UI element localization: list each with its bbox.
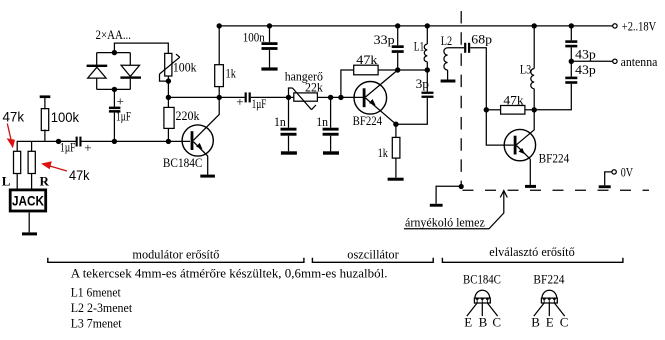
terminal antenna — [613, 59, 617, 63]
svg-text:JACK: JACK — [12, 193, 44, 208]
svg-text:oszcillátor: oszcillátor — [347, 247, 399, 262]
capacitor C8 3p plate bottom — [422, 96, 434, 98]
wire node F to Q3 base — [486, 110, 513, 145]
resistor R2 47k body — [14, 151, 21, 173]
node rail L1 — [425, 23, 430, 28]
wire L2 to ground — [447, 70, 449, 80]
svg-text:1µF: 1µF — [60, 140, 75, 155]
wire P2 right to C6 — [330, 97, 332, 127]
shield boundary vertical dashed — [460, 11, 462, 187]
potentiometer P2 arrow — [293, 88, 316, 110]
wire rail to L3 — [533, 26, 535, 69]
wire main C2 to base node — [82, 140, 191, 142]
svg-text:BF224: BF224 — [539, 151, 570, 166]
arrow Q2 emitter — [369, 99, 376, 105]
node B R4-collector junction — [217, 95, 222, 100]
resistor R4 1k body — [215, 65, 224, 87]
svg-text:1n: 1n — [316, 114, 328, 129]
potentiometer P2 22k body — [294, 93, 318, 101]
wire rail to C10 — [570, 26, 572, 40]
resistor R7 1k body — [392, 137, 400, 158]
supply tap T-bar — [40, 95, 51, 98]
diode D2 triangle — [121, 65, 139, 76]
wire stub to R3 — [31, 141, 33, 151]
svg-text:0V: 0V — [621, 165, 634, 180]
svg-text:B: B — [479, 315, 488, 330]
arrow leader head — [500, 191, 507, 198]
ground L2 — [441, 80, 456, 83]
terminal 0V — [612, 170, 616, 174]
resistor R3 47k body — [28, 151, 35, 173]
node junction on main wire left — [56, 139, 61, 144]
svg-text:47k: 47k — [69, 167, 90, 183]
svg-text:E: E — [464, 315, 472, 330]
node rail C7 — [395, 23, 400, 28]
wire node A to R5 — [167, 97, 169, 107]
svg-text:L3 7menet: L3 7menet — [71, 315, 122, 330]
svg-text:33p: 33p — [374, 32, 395, 47]
svg-text:+: + — [84, 140, 91, 155]
wire C1 to main node — [113, 113, 115, 142]
wire battery to 100k pot — [114, 43, 168, 53]
wire C6 to ground — [330, 136, 332, 152]
wire Q1 emitter to ground — [207, 156, 209, 175]
capacitor C2 1uF plate left — [76, 137, 78, 147]
capacitor C10 43p plate top — [565, 40, 577, 43]
wire P1 wiper link — [160, 74, 169, 81]
wire Q2 collector — [366, 70, 398, 97]
capacitor C6 1n plate bottom — [323, 133, 339, 136]
diode D1 cathode bar — [87, 65, 108, 67]
arrow Q1 emitter — [196, 143, 202, 149]
wire R1 to main wire — [44, 130, 46, 142]
wire Q3 emitter to ground — [529, 159, 531, 185]
wire rail to L1 — [426, 26, 428, 44]
wire supply to R1 — [44, 98, 46, 109]
arrow red annotation 2 — [41, 161, 67, 171]
pinout case BF224 — [541, 290, 557, 303]
inductor L2 coil — [444, 48, 448, 70]
node battery top — [112, 50, 117, 55]
resistor R8 47k body — [501, 106, 525, 115]
inductor L1 coil — [424, 44, 427, 62]
svg-text:100k: 100k — [173, 60, 197, 75]
svg-text:B: B — [531, 315, 540, 330]
arrow red annotation 1 — [7, 124, 15, 149]
wire battery bottom to C1 — [113, 89, 115, 106]
node shield ground junction — [459, 184, 464, 189]
svg-text:2×AA...: 2×AA... — [96, 27, 132, 42]
pinout BF224 legs — [534, 303, 565, 316]
wire P2 left lead — [289, 96, 294, 98]
wire node E to C8 — [396, 98, 427, 124]
node F base junction — [484, 107, 489, 112]
node rail L3 — [532, 23, 537, 28]
svg-text:43p: 43p — [575, 46, 596, 61]
svg-text:47k: 47k — [356, 52, 378, 67]
svg-text:L2: L2 — [441, 33, 452, 48]
wire right battery branch lower — [129, 79, 131, 90]
svg-text:modulátor erősítő: modulátor erősítő — [132, 247, 219, 262]
wire C5 to ground — [288, 136, 290, 152]
capacitor C1 1uF plate top — [109, 107, 121, 110]
terminal supply — [613, 24, 617, 28]
ground 0V — [599, 185, 611, 188]
node rail C3 — [267, 23, 272, 28]
svg-text:L3: L3 — [520, 61, 531, 76]
wire L1 to node D — [426, 62, 428, 70]
svg-text:100k: 100k — [51, 109, 80, 125]
wire P2 wiper link — [289, 88, 293, 97]
wire node E to R7 — [395, 124, 397, 137]
wire node C to node D — [398, 69, 428, 71]
wire R2 to jack — [16, 174, 18, 189]
svg-text:BF224: BF224 — [353, 113, 383, 128]
capacitor C8 3p plate top — [422, 92, 434, 94]
node battery bottom — [112, 87, 117, 92]
inductor L3 coil — [531, 69, 534, 89]
wire antenna lead — [571, 60, 612, 62]
svg-text:C: C — [560, 315, 569, 330]
svg-text:+: + — [117, 94, 124, 109]
svg-text:L1: L1 — [414, 39, 425, 54]
svg-text:L2 2-3menet: L2 2-3menet — [71, 300, 133, 315]
node A P1-R5 junction — [166, 95, 171, 100]
ground C5 — [281, 151, 297, 154]
wire right battery branch upper — [129, 53, 131, 66]
wire R8 right lead — [525, 109, 534, 111]
capacitor C5 1n plate bottom — [281, 133, 297, 136]
transistor Q2 base bar — [363, 88, 366, 107]
capacitor C4 1uF plate left — [245, 92, 247, 102]
wire Q3 collector — [517, 110, 535, 145]
svg-text:C: C — [492, 315, 501, 330]
transistor Q1 base bar — [191, 131, 194, 150]
ground jack — [22, 232, 37, 235]
transistor Q3 BF224 circle — [504, 129, 535, 160]
svg-text:1µF: 1µF — [116, 109, 131, 124]
node antenna junction — [569, 59, 574, 64]
node C1 main junction — [112, 139, 117, 144]
wire Q2 emitter — [366, 98, 396, 124]
resistor R5 220k body — [164, 107, 174, 128]
ground C6 — [323, 151, 339, 154]
pinout BC184C legs — [467, 303, 498, 316]
wire R4 to node B — [218, 87, 220, 98]
wire R3 to jack — [31, 174, 33, 189]
capacitor C3 100n plate top — [262, 42, 278, 45]
node rail R4 — [217, 23, 222, 28]
connector JACK box — [10, 190, 46, 211]
svg-text:L: L — [2, 174, 11, 189]
capacitor C4 1uF plate right — [249, 92, 251, 102]
capacitor C6 1n plate top — [323, 128, 339, 131]
wire L2 to C9 — [448, 47, 465, 49]
capacitor C11 43p plate bottom — [565, 81, 577, 84]
svg-text:+: + — [236, 94, 243, 109]
bracket oscillator section — [312, 258, 433, 263]
wire Q1 emitter — [193, 142, 207, 156]
shield boundary horizontal dashed — [463, 189, 650, 191]
wire left battery branch upper — [96, 53, 98, 65]
wire R6 left lead — [341, 70, 354, 97]
wire battery top rail — [97, 52, 131, 54]
node P1 wiper junction — [166, 78, 171, 83]
svg-text:1µF: 1µF — [252, 96, 267, 111]
svg-text:220k: 220k — [176, 108, 200, 123]
svg-text:A tekercsek 4mm-es átmérőre ké: A tekercsek 4mm-es átmérőre készültek, 0… — [71, 266, 388, 281]
capacitor C11 43p plate top — [565, 77, 577, 80]
node D L1 bottom — [425, 67, 430, 72]
ground Q3 emitter — [525, 185, 536, 188]
svg-text:árnyékoló lemez: árnyékoló lemez — [405, 215, 485, 230]
wire top rail — [219, 25, 613, 27]
capacitor C7 33p plate top — [392, 45, 404, 48]
capacitor C7 33p plate bottom — [392, 50, 404, 53]
node P2 right — [328, 95, 333, 100]
ground shield — [430, 204, 443, 207]
capacitor C3 100n plate bottom — [262, 47, 278, 50]
svg-text:BC184C: BC184C — [163, 155, 203, 170]
diode D2 cathode bar — [120, 76, 141, 78]
wire Q1 collector — [193, 97, 219, 140]
transistor Q1 BC184C circle — [182, 125, 213, 156]
wire rail to R4 — [218, 26, 220, 65]
wire R7 to ground — [395, 158, 397, 178]
node R6 base junction — [338, 95, 343, 100]
svg-text:1k: 1k — [378, 145, 389, 160]
wire P2 left to C5 — [288, 97, 290, 127]
wire jack to ground — [28, 213, 30, 233]
node R5 main junction — [166, 139, 171, 144]
ground Q1 emitter — [200, 175, 215, 178]
wire antenna node to C11 — [570, 61, 572, 76]
svg-text:BF224: BF224 — [533, 272, 565, 287]
potentiometer P1 100k body — [165, 53, 172, 76]
node rail C10 — [569, 23, 574, 28]
wire P1 bottom to node A — [167, 76, 169, 97]
wire P2 to Q2 base — [331, 96, 363, 98]
svg-text:antenna: antenna — [621, 54, 658, 69]
wire node A to R4 node — [168, 96, 219, 98]
resistor R1 100k body — [41, 109, 48, 131]
wire R8 left lead — [486, 109, 500, 111]
bracket modulator section — [48, 258, 304, 263]
svg-text:BC184C: BC184C — [463, 272, 501, 287]
node E emitter junction — [393, 122, 398, 127]
resistor R6 47k body — [354, 65, 378, 75]
svg-text:47k: 47k — [3, 109, 25, 125]
node C collector junction — [395, 67, 400, 72]
wire battery bottom rail — [97, 88, 131, 90]
pinout case BC184C — [474, 290, 490, 303]
node P2 left — [286, 95, 291, 100]
wire C4 to P2 — [251, 96, 289, 98]
wire shield to ground — [436, 186, 461, 204]
capacitor C10 43p plate bottom — [565, 45, 577, 48]
wire R6 right lead — [378, 69, 398, 71]
wire C3 to ground — [269, 50, 271, 68]
ground R7 — [388, 178, 404, 181]
wire C11 to node G — [534, 84, 571, 110]
svg-text:100n: 100n — [243, 29, 265, 44]
wire C9 to node F — [470, 48, 486, 110]
svg-text:R: R — [40, 174, 50, 189]
svg-text:68p: 68p — [471, 32, 492, 47]
capacitor C5 1n plate top — [281, 128, 297, 131]
capacitor C1 1uF plate bottom — [109, 110, 121, 113]
svg-text:43p: 43p — [575, 62, 596, 77]
wire rail to C3 — [269, 26, 271, 42]
arrow Q3 emitter — [519, 148, 525, 154]
capacitor C9 68p plate left — [464, 43, 466, 53]
svg-text:1n: 1n — [274, 114, 286, 129]
potentiometer P1 arrow — [160, 54, 180, 74]
svg-text:E: E — [546, 315, 554, 330]
wire rail to C7 — [397, 26, 399, 45]
wire left battery branch lower — [96, 78, 98, 89]
wire Q3 emitter — [517, 146, 531, 160]
transistor Q2 BF224 circle — [354, 82, 387, 115]
svg-text:elválasztó erősítő: elválasztó erősítő — [489, 244, 574, 259]
bracket buffer section — [442, 258, 623, 263]
wire node D to C8 — [426, 70, 428, 92]
svg-text:+2..18V: +2..18V — [622, 19, 657, 34]
capacitor C9 68p plate right — [468, 43, 470, 53]
wire C10 to antenna node — [570, 47, 572, 61]
diode D1 triangle — [88, 67, 106, 78]
ground C3 — [261, 67, 277, 70]
capacitor C2 1uF plate right — [79, 137, 81, 147]
wire R5 to main wire — [167, 128, 169, 141]
svg-text:1k: 1k — [226, 66, 237, 81]
wire node B to C4 — [219, 96, 244, 98]
node G collector junction — [532, 107, 537, 112]
wire label underline and leader — [404, 192, 504, 229]
svg-text:L1 6menet: L1 6menet — [71, 285, 121, 300]
wire P2 right lead — [317, 96, 330, 98]
transistor Q3 base bar — [514, 136, 517, 155]
wire C7 to node C — [397, 53, 399, 70]
wire main left end to R2 — [17, 141, 75, 151]
wire 0V to ground — [605, 172, 612, 185]
wire L3 to node G — [533, 89, 535, 110]
